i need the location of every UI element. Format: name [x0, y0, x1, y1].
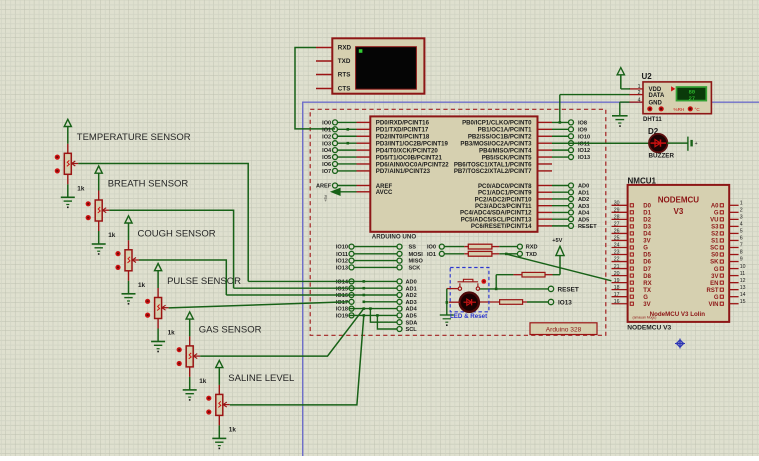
- svg-text:AD2: AD2: [406, 293, 417, 299]
- svg-text:IO11: IO11: [578, 141, 590, 147]
- svg-text:11: 11: [740, 271, 745, 277]
- svg-text:AVCC: AVCC: [376, 190, 393, 196]
- svg-text:PC6/RESET/PCINT14: PC6/RESET/PCINT14: [471, 223, 532, 230]
- svg-text:1k: 1k: [77, 185, 85, 192]
- svg-text:PB7/TOSC2/XTAL2/PCINT7: PB7/TOSC2/XTAL2/PCINT7: [454, 168, 532, 175]
- svg-text:12: 12: [740, 278, 746, 284]
- svg-text:27: 27: [614, 222, 620, 228]
- svg-text:5: 5: [740, 229, 743, 235]
- svg-text:D1: D1: [643, 211, 651, 217]
- svg-text:IO1: IO1: [322, 127, 331, 133]
- svg-text:3V: 3V: [643, 302, 650, 308]
- svg-text:IO12: IO12: [336, 259, 348, 265]
- svg-text:8: 8: [740, 250, 743, 256]
- svg-text:AD3: AD3: [578, 204, 589, 210]
- svg-text:IO9: IO9: [578, 127, 587, 133]
- svg-text:VIN: VIN: [708, 302, 718, 308]
- svg-text:RST: RST: [707, 288, 719, 294]
- svg-text:G: G: [643, 295, 648, 301]
- svg-text:23: 23: [614, 250, 620, 256]
- svg-text:GAS SENSOR: GAS SENSOR: [199, 325, 262, 336]
- svg-text:1: 1: [740, 201, 743, 207]
- svg-text:D3: D3: [643, 225, 651, 231]
- svg-text:CTS: CTS: [338, 86, 351, 93]
- svg-text:IO2: IO2: [322, 134, 331, 140]
- svg-text:IO4: IO4: [322, 148, 332, 154]
- svg-text:TXD: TXD: [338, 58, 351, 65]
- svg-text:IO15: IO15: [336, 286, 348, 292]
- svg-text:DHT11: DHT11: [643, 117, 662, 123]
- svg-text:PD7/AIN1/PCINT23: PD7/AIN1/PCINT23: [376, 168, 431, 175]
- svg-text:AD0: AD0: [406, 280, 417, 286]
- svg-text:D6: D6: [643, 260, 651, 266]
- svg-text:NodeMCU V3 Lolin: NodeMCU V3 Lolin: [650, 311, 706, 318]
- svg-text:IO12: IO12: [578, 148, 590, 154]
- svg-text:LED & Reset: LED & Reset: [450, 313, 487, 320]
- svg-text:AD0: AD0: [578, 184, 589, 190]
- svg-text:D0: D0: [643, 204, 651, 210]
- svg-text:4: 4: [740, 222, 743, 228]
- svg-text:COUGH SENSOR: COUGH SENSOR: [138, 229, 216, 240]
- svg-text:28: 28: [614, 215, 620, 221]
- svg-text:GND: GND: [649, 100, 663, 106]
- svg-text:AD5: AD5: [406, 314, 417, 320]
- svg-text:2: 2: [740, 208, 743, 214]
- svg-text:22: 22: [614, 257, 620, 263]
- svg-text:IO8: IO8: [578, 121, 587, 127]
- svg-text:D8: D8: [643, 274, 651, 280]
- svg-text:(amauan Mogu): (amauan Mogu): [633, 316, 657, 320]
- svg-text:SCL: SCL: [406, 327, 418, 333]
- svg-text:+: +: [695, 141, 698, 147]
- svg-text:19: 19: [614, 278, 620, 284]
- svg-text:6: 6: [740, 236, 743, 242]
- svg-text:AD4: AD4: [406, 307, 418, 313]
- svg-text:IO0: IO0: [322, 121, 331, 127]
- svg-text:3V: 3V: [711, 274, 718, 280]
- svg-text:SALINE LEVEL: SALINE LEVEL: [228, 373, 294, 384]
- svg-text:3: 3: [740, 215, 743, 221]
- svg-text:%RH: %RH: [674, 107, 685, 112]
- svg-text:IO10: IO10: [336, 245, 348, 251]
- svg-text:G: G: [714, 295, 719, 301]
- svg-text:27: 27: [688, 95, 695, 102]
- svg-text:AREF: AREF: [316, 184, 332, 190]
- svg-text:U2: U2: [642, 72, 653, 81]
- svg-text:NODEMCU V3: NODEMCU V3: [627, 324, 671, 331]
- svg-text:IO10: IO10: [578, 134, 590, 140]
- svg-text:IO13: IO13: [578, 155, 590, 161]
- svg-text:S1: S1: [711, 239, 719, 245]
- svg-text:D4: D4: [643, 232, 651, 238]
- svg-text:4: 4: [638, 97, 641, 103]
- svg-text:7: 7: [740, 243, 743, 249]
- svg-text:RXD: RXD: [526, 245, 538, 251]
- svg-text:30: 30: [614, 201, 620, 207]
- svg-text:PULSE SENSOR: PULSE SENSOR: [167, 276, 241, 287]
- svg-text:RX: RX: [643, 281, 651, 287]
- svg-text:G: G: [643, 246, 648, 252]
- svg-text:2: 2: [638, 90, 641, 96]
- svg-text:SS: SS: [409, 245, 417, 251]
- svg-text:IO3: IO3: [322, 141, 331, 147]
- svg-text:+5V: +5V: [324, 194, 328, 201]
- svg-text:17: 17: [614, 292, 620, 298]
- svg-text:V3: V3: [674, 207, 684, 216]
- svg-text:S2: S2: [711, 232, 719, 238]
- svg-text:AD2: AD2: [578, 197, 589, 203]
- svg-text:MISO: MISO: [409, 259, 424, 265]
- svg-text:VU: VU: [710, 218, 718, 224]
- svg-text:SC: SC: [710, 246, 719, 252]
- svg-text:°C: °C: [695, 107, 701, 112]
- svg-text:SCK: SCK: [409, 266, 421, 272]
- svg-text:1k: 1k: [199, 378, 207, 385]
- svg-text:AD1: AD1: [578, 190, 589, 196]
- svg-text:DATA: DATA: [649, 93, 665, 99]
- svg-text:BREATH SENSOR: BREATH SENSOR: [108, 179, 189, 190]
- svg-text:IO16: IO16: [336, 293, 348, 299]
- svg-text:A0: A0: [711, 204, 719, 210]
- svg-text:20: 20: [614, 271, 620, 277]
- svg-text:3V: 3V: [643, 239, 650, 245]
- svg-text:Arduino 328: Arduino 328: [546, 326, 582, 333]
- svg-text:29: 29: [614, 208, 620, 214]
- svg-text:1k: 1k: [168, 330, 176, 337]
- svg-text:S3: S3: [711, 225, 719, 231]
- svg-text:ARDUINO UNO: ARDUINO UNO: [372, 233, 417, 240]
- svg-text:RXD: RXD: [338, 45, 352, 52]
- svg-text:IO1: IO1: [427, 252, 436, 258]
- svg-text:18: 18: [614, 285, 620, 291]
- svg-text:10: 10: [740, 264, 746, 270]
- svg-text:SDA: SDA: [406, 320, 418, 326]
- svg-text:RESET: RESET: [558, 286, 579, 293]
- svg-text:SK: SK: [710, 260, 719, 266]
- svg-text:14: 14: [740, 292, 746, 298]
- svg-text:AD4: AD4: [578, 211, 590, 217]
- svg-text:IO7: IO7: [322, 169, 331, 175]
- svg-text:AD5: AD5: [578, 217, 589, 223]
- svg-text:IO11: IO11: [336, 252, 348, 258]
- svg-text:IO0: IO0: [427, 245, 436, 251]
- svg-text:IO14: IO14: [336, 280, 349, 286]
- svg-text:9: 9: [740, 257, 743, 263]
- svg-text:BUZZER: BUZZER: [649, 153, 675, 160]
- svg-text:AREF: AREF: [376, 184, 393, 190]
- svg-text:IO6: IO6: [322, 162, 331, 168]
- svg-text:AD1: AD1: [406, 286, 417, 292]
- svg-text:25: 25: [614, 236, 620, 242]
- svg-text:D2: D2: [643, 218, 651, 224]
- svg-text:TX: TX: [643, 288, 651, 294]
- svg-text:21: 21: [614, 264, 620, 270]
- svg-text:AD3: AD3: [406, 300, 417, 306]
- svg-text:IO18: IO18: [336, 307, 348, 313]
- svg-text:13: 13: [740, 285, 746, 291]
- svg-text:+5V: +5V: [552, 238, 562, 244]
- svg-text:TXD: TXD: [526, 252, 537, 258]
- svg-text:MOSI: MOSI: [409, 252, 424, 258]
- svg-text:24: 24: [614, 243, 620, 249]
- svg-text:NODEMCU: NODEMCU: [658, 195, 700, 204]
- svg-text:IO13: IO13: [558, 299, 572, 306]
- svg-text:IO13: IO13: [336, 266, 348, 272]
- svg-text:D7: D7: [643, 267, 651, 273]
- svg-text:S0: S0: [711, 253, 719, 259]
- svg-text:RTS: RTS: [338, 72, 351, 79]
- svg-text:RESET: RESET: [578, 224, 597, 230]
- svg-text:26: 26: [614, 229, 620, 235]
- svg-text:G: G: [714, 211, 719, 217]
- svg-text:D5: D5: [643, 253, 651, 259]
- svg-text:1k: 1k: [108, 232, 116, 239]
- svg-text:1k: 1k: [229, 426, 237, 433]
- svg-text:IO19: IO19: [336, 314, 348, 320]
- svg-text:IO5: IO5: [322, 155, 331, 161]
- svg-text:G: G: [714, 267, 719, 273]
- svg-text:TEMPERATURE SENSOR: TEMPERATURE SENSOR: [77, 132, 191, 143]
- svg-text:EN: EN: [710, 281, 718, 287]
- svg-text:16: 16: [614, 299, 620, 305]
- svg-text:1k: 1k: [138, 282, 146, 289]
- svg-text:15: 15: [740, 299, 746, 305]
